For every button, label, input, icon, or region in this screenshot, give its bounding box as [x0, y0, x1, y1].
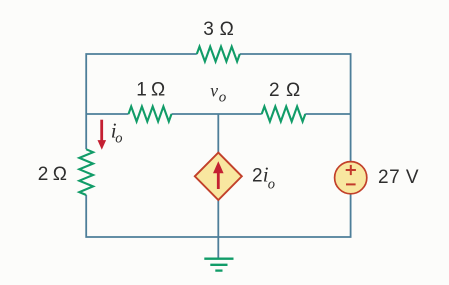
arrow inside diamond — [213, 161, 224, 189]
resistor 1ohm — [129, 107, 172, 122]
minus sign of voltage source — [346, 183, 356, 185]
resistor R top 3ohm — [197, 47, 240, 62]
svg-text:2: 2 — [269, 80, 280, 101]
voltage source 27V (circle) — [335, 162, 367, 194]
resistor 2ohm right — [262, 107, 306, 122]
dependent current source 2io (diamond) — [195, 153, 242, 200]
svg-text:2: 2 — [38, 164, 49, 185]
svg-text:o: o — [268, 177, 275, 193]
svg-text:3: 3 — [203, 19, 214, 40]
svg-text:o: o — [219, 89, 227, 105]
svg-text:v: v — [210, 81, 218, 101]
wire middle row center — [172, 113, 262, 115]
svg-text:2: 2 — [252, 165, 263, 186]
svg-text:o: o — [115, 131, 122, 147]
ground — [204, 259, 233, 271]
svg-text:27 V: 27 V — [378, 167, 419, 188]
svg-text:Ω: Ω — [286, 80, 300, 101]
plus sign of voltage source — [346, 165, 356, 175]
wire top-left segment — [86, 54, 197, 149]
current io arrow (red) — [98, 120, 107, 150]
svg-text:Ω: Ω — [151, 79, 165, 100]
resistor 2ohm left vertical — [79, 149, 93, 195]
svg-text:1: 1 — [136, 79, 147, 100]
wire top-right segment — [240, 54, 351, 162]
svg-text:Ω: Ω — [53, 164, 67, 185]
svg-text:Ω: Ω — [220, 19, 234, 40]
wire left-bottom segment — [86, 194, 350, 237]
wire source to bottom — [217, 199, 219, 237]
wire ground stub — [217, 237, 219, 259]
wire middle row right — [305, 113, 350, 115]
wire middle row left — [86, 113, 128, 115]
wire node vo down to source — [217, 114, 219, 154]
